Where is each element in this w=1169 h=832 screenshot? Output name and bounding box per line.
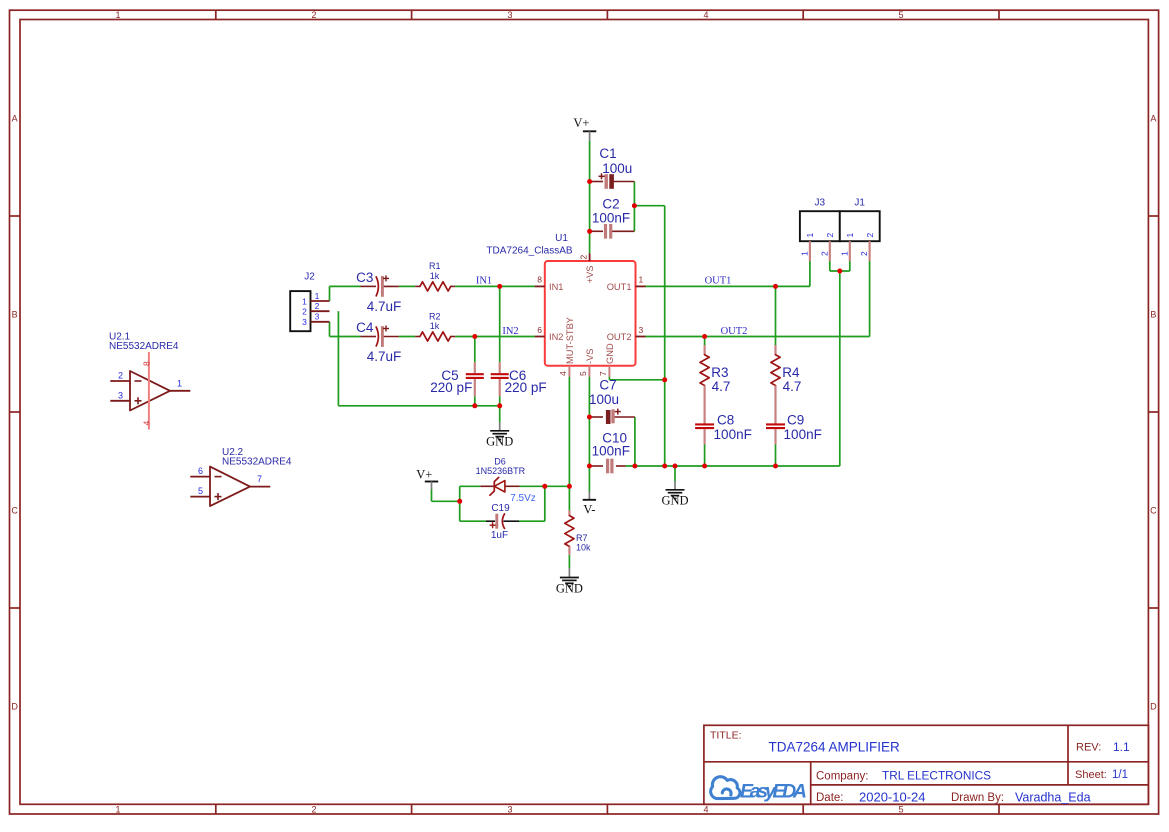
- svg-text:2: 2: [311, 804, 316, 814]
- svg-text:2: 2: [819, 251, 829, 256]
- svg-text:5: 5: [898, 10, 903, 20]
- svg-text:J2: J2: [304, 271, 315, 282]
- svg-text:TDA7264 AMPLIFIER: TDA7264 AMPLIFIER: [769, 740, 901, 755]
- svg-text:+VS: +VS: [585, 266, 595, 284]
- svg-text:C2: C2: [602, 196, 619, 211]
- svg-text:A: A: [1150, 114, 1156, 124]
- svg-text:1: 1: [799, 251, 809, 256]
- svg-text:IN1: IN1: [476, 276, 492, 287]
- svg-text:C4: C4: [356, 320, 374, 335]
- svg-text:100nF: 100nF: [592, 444, 630, 459]
- svg-text:2: 2: [311, 10, 316, 20]
- svg-text:7.5Vz: 7.5Vz: [510, 493, 536, 504]
- svg-text:3: 3: [507, 804, 512, 814]
- svg-text:8: 8: [537, 275, 542, 285]
- svg-text:2020-10-24: 2020-10-24: [859, 789, 926, 804]
- svg-text:C7: C7: [599, 378, 616, 393]
- svg-text:1: 1: [115, 10, 120, 20]
- svg-text:V+: V+: [416, 467, 432, 481]
- svg-text:C8: C8: [717, 413, 734, 428]
- svg-text:1: 1: [177, 378, 182, 388]
- svg-text:6: 6: [198, 466, 203, 476]
- svg-text:1: 1: [639, 275, 644, 285]
- svg-text:1/1: 1/1: [1112, 769, 1128, 781]
- svg-text:100nF: 100nF: [714, 427, 752, 442]
- svg-text:4: 4: [141, 421, 151, 426]
- svg-text:OUT1: OUT1: [607, 282, 632, 292]
- svg-text:J3: J3: [815, 198, 826, 209]
- svg-text:OUT2: OUT2: [721, 326, 748, 337]
- svg-text:1.1: 1.1: [1113, 740, 1130, 754]
- svg-text:3: 3: [507, 10, 512, 20]
- svg-text:Drawn By:: Drawn By:: [951, 792, 1004, 804]
- svg-text:V-: V-: [583, 503, 595, 517]
- svg-text:1N5236BTR: 1N5236BTR: [476, 466, 526, 476]
- svg-text:J1: J1: [854, 198, 865, 209]
- svg-text:C: C: [11, 506, 18, 516]
- svg-text:Company:: Company:: [816, 770, 868, 782]
- svg-text:7: 7: [257, 474, 262, 484]
- svg-text:4: 4: [703, 10, 708, 20]
- svg-text:1: 1: [315, 291, 320, 301]
- svg-text:2: 2: [315, 301, 320, 311]
- svg-text:4.7uF: 4.7uF: [367, 349, 402, 364]
- svg-text:C19: C19: [491, 503, 510, 514]
- svg-text:TDA7264_ClassAB: TDA7264_ClassAB: [486, 246, 572, 257]
- svg-text:4: 4: [703, 804, 708, 814]
- svg-text:GND: GND: [556, 581, 583, 595]
- svg-text:GND: GND: [605, 343, 615, 364]
- svg-text:1k: 1k: [430, 271, 440, 281]
- svg-text:100u: 100u: [589, 392, 619, 407]
- svg-text:2: 2: [578, 255, 588, 260]
- svg-text:220 pF: 220 pF: [430, 380, 472, 395]
- svg-text:1: 1: [302, 296, 307, 306]
- svg-text:2: 2: [302, 307, 307, 317]
- svg-text:1: 1: [115, 804, 120, 814]
- svg-text:7: 7: [598, 371, 608, 376]
- svg-text:100nF: 100nF: [592, 211, 630, 226]
- svg-text:C: C: [1150, 506, 1157, 516]
- svg-text:TITLE:: TITLE:: [710, 730, 742, 742]
- svg-text:U1: U1: [555, 233, 568, 244]
- svg-text:MUT-STBY: MUT-STBY: [565, 317, 575, 364]
- svg-text:4.7uF: 4.7uF: [367, 299, 402, 314]
- svg-text:C3: C3: [356, 270, 373, 285]
- svg-text:2: 2: [859, 251, 869, 256]
- svg-text:IN2: IN2: [549, 332, 563, 342]
- svg-text:1: 1: [839, 251, 849, 256]
- svg-text:IN1: IN1: [549, 282, 563, 292]
- svg-text:1uF: 1uF: [491, 530, 508, 541]
- svg-text:6: 6: [537, 325, 542, 335]
- svg-text:1: 1: [845, 233, 855, 238]
- svg-text:100u: 100u: [602, 161, 632, 176]
- svg-text:3: 3: [315, 312, 320, 322]
- svg-text:C1: C1: [599, 146, 616, 161]
- svg-text:D: D: [1150, 702, 1157, 712]
- svg-text:R1: R1: [429, 261, 441, 271]
- svg-text:10k: 10k: [576, 543, 591, 553]
- svg-text:4.7: 4.7: [783, 379, 802, 394]
- svg-text:Sheet:: Sheet:: [1075, 769, 1107, 781]
- svg-text:R7: R7: [576, 533, 588, 543]
- svg-text:A: A: [12, 114, 18, 124]
- svg-text:NE5532ADRE4: NE5532ADRE4: [109, 341, 179, 352]
- svg-text:Varadha_Eda: Varadha_Eda: [1015, 790, 1091, 804]
- svg-text:5: 5: [198, 486, 203, 496]
- svg-text:IN2: IN2: [502, 326, 518, 337]
- svg-text:D6: D6: [494, 456, 506, 466]
- svg-text:D: D: [11, 702, 18, 712]
- svg-text:TRL ELECTRONICS: TRL ELECTRONICS: [882, 768, 991, 782]
- svg-text:1: 1: [805, 233, 815, 238]
- svg-text:4.7: 4.7: [712, 379, 731, 394]
- svg-text:R2: R2: [429, 311, 441, 321]
- svg-text:1k: 1k: [430, 321, 440, 331]
- svg-text:GND: GND: [661, 494, 688, 508]
- svg-text:3: 3: [118, 390, 123, 400]
- svg-text:V+: V+: [573, 116, 589, 130]
- svg-text:REV:: REV:: [1076, 742, 1101, 754]
- svg-text:8: 8: [141, 361, 151, 366]
- svg-text:-VS: -VS: [585, 349, 595, 365]
- svg-text:3: 3: [639, 325, 644, 335]
- svg-text:B: B: [12, 310, 18, 320]
- svg-text:OUT1: OUT1: [705, 276, 732, 287]
- svg-text:2: 2: [118, 371, 123, 381]
- svg-text:Date:: Date:: [816, 792, 844, 804]
- svg-text:C9: C9: [787, 413, 804, 428]
- svg-text:100nF: 100nF: [784, 427, 822, 442]
- svg-text:3: 3: [302, 317, 307, 327]
- svg-text:GND: GND: [486, 435, 513, 449]
- svg-text:5: 5: [578, 371, 588, 376]
- svg-text:2: 2: [825, 233, 835, 238]
- svg-text:OUT2: OUT2: [607, 332, 632, 342]
- svg-text:EasyEDA: EasyEDA: [740, 781, 807, 803]
- svg-text:2: 2: [865, 233, 875, 238]
- svg-text:NE5532ADRE4: NE5532ADRE4: [222, 457, 292, 468]
- svg-text:5: 5: [898, 804, 903, 814]
- svg-text:B: B: [1150, 310, 1156, 320]
- svg-text:220 pF: 220 pF: [505, 380, 547, 395]
- svg-text:4: 4: [558, 371, 568, 376]
